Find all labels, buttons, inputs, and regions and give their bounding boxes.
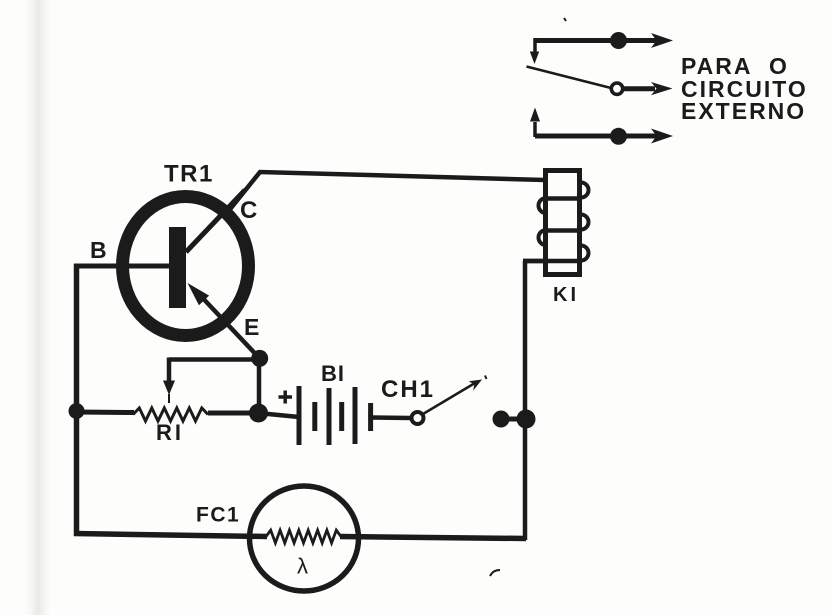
svg-text:λ: λ xyxy=(297,554,308,579)
svg-text:C: C xyxy=(240,197,257,224)
svg-text:BI: BI xyxy=(321,361,345,386)
svg-text:FC1: FC1 xyxy=(196,504,240,527)
svg-text:CH1: CH1 xyxy=(381,376,435,403)
svg-text:EXTERNO: EXTERNO xyxy=(681,98,806,124)
svg-text:RI: RI xyxy=(156,420,184,445)
svg-text:KI: KI xyxy=(553,284,579,306)
svg-text:B: B xyxy=(90,237,107,263)
svg-text:TR1: TR1 xyxy=(164,161,214,188)
svg-text:E: E xyxy=(244,314,259,340)
